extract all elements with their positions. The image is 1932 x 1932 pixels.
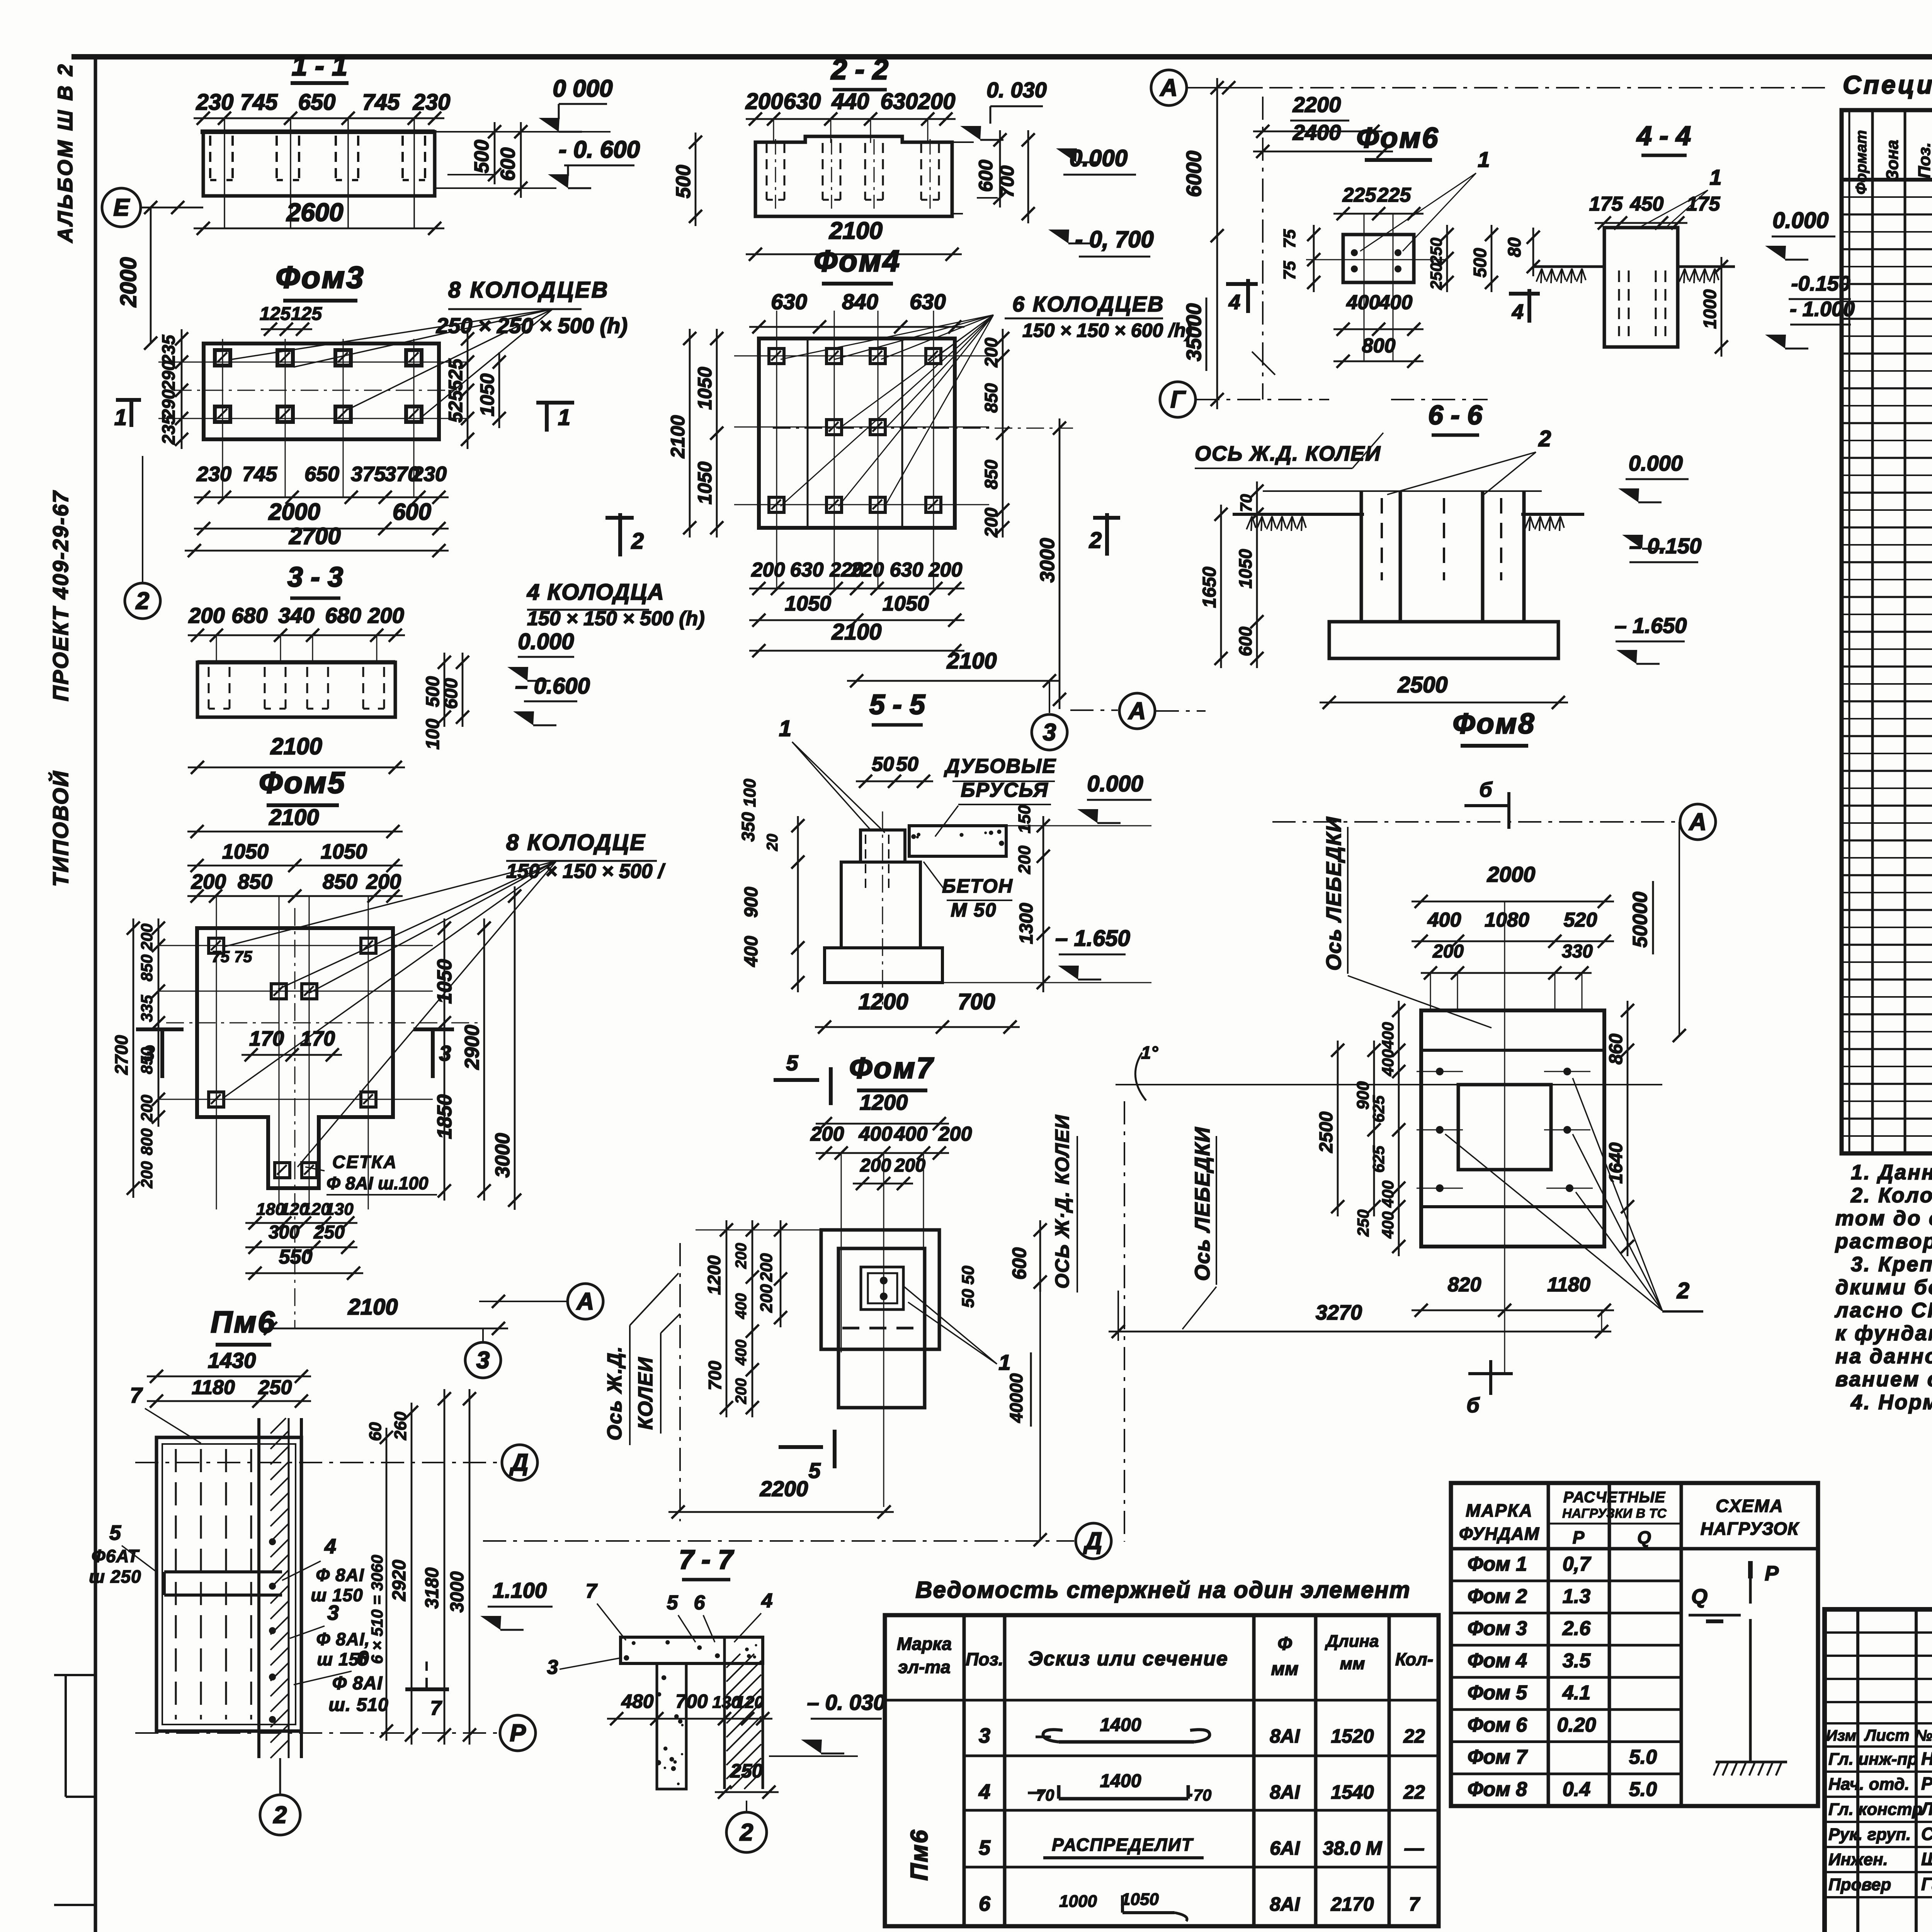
section mark 3 left [136, 1027, 184, 1031]
svg-text:8 КОЛОДЦЕВ: 8 КОЛОДЦЕВ [448, 277, 609, 303]
svg-text:0,7: 0,7 [1563, 1553, 1591, 1575]
winch plan right dims 860 1640 50000 [1627, 1001, 1629, 1256]
svg-text:75: 75 [1280, 261, 1299, 280]
svg-text:700: 700 [705, 1361, 725, 1390]
svg-text:8АI: 8АI [1270, 1725, 1300, 1747]
svg-text:6: 6 [979, 1892, 991, 1915]
svg-text:300: 300 [269, 1222, 299, 1243]
svg-text:М 50: М 50 [951, 899, 997, 921]
svg-text:400: 400 [733, 1293, 750, 1320]
svg-text:500: 500 [1470, 248, 1490, 277]
svg-text:630: 630 [910, 289, 946, 314]
svg-text:1. Данный лист см. совмест: 1. Данный лист см. совместно с листами К… [1851, 1161, 1932, 1184]
svg-text:335: 335 [138, 995, 156, 1022]
svg-text:Фом 2: Фом 2 [1468, 1585, 1527, 1607]
svg-text:600: 600 [1235, 626, 1255, 656]
svg-text:1: 1 [1478, 147, 1490, 172]
svg-text:700: 700 [675, 1690, 708, 1712]
svg-text:220: 220 [850, 559, 884, 581]
svg-text:1°: 1° [1141, 1043, 1158, 1063]
svg-text:Ф6АТ: Ф6АТ [92, 1546, 140, 1566]
svg-text:75: 75 [1280, 229, 1299, 248]
svg-text:40000: 40000 [1006, 1373, 1026, 1423]
svg-text:СХЕМА: СХЕМА [1716, 1496, 1784, 1516]
svg-text:А: А [1160, 75, 1178, 101]
svg-text:ДУБОВЫЕ: ДУБОВЫЕ [944, 755, 1056, 777]
svg-text:125: 125 [291, 304, 322, 324]
winch plan body [1421, 1010, 1604, 1247]
section 3-3 right dims 500 600 100 [444, 653, 446, 727]
svg-text:– 0.600: – 0.600 [515, 673, 590, 699]
left margin bottom register marks [54, 1674, 95, 1676]
section 2-2 right dims 600 700 [999, 130, 1001, 207]
svg-text:6АI: 6АI [1270, 1837, 1300, 1859]
svg-text:1520: 1520 [1331, 1725, 1374, 1747]
svg-text:1050: 1050 [222, 840, 269, 863]
svg-text:2600: 2600 [286, 198, 344, 226]
svg-text:200: 200 [860, 1155, 891, 1176]
title block upper small rows [1825, 1631, 1932, 1634]
svg-text:ТИПОВОЙ: ТИПОВОЙ [48, 770, 73, 887]
axis circle A left above winch plan [1119, 693, 1155, 729]
svg-text:200: 200 [751, 559, 785, 581]
svg-text:Гальперина: Гальперина [1921, 1874, 1932, 1894]
svg-text:200: 200 [367, 603, 404, 628]
section mark 5 bottom [779, 1445, 823, 1449]
plate Pm6 slab body [156, 1437, 301, 1731]
axis circle A right [1070, 709, 1118, 711]
svg-text:1400: 1400 [1100, 1715, 1141, 1735]
svg-text:№ документа: № документа [1915, 1727, 1932, 1744]
svg-text:525: 525 [445, 390, 466, 423]
svg-text:800: 800 [1362, 335, 1396, 357]
svg-text:4: 4 [978, 1780, 990, 1803]
svg-text:Д: Д [509, 1449, 529, 1476]
load diagram ground hatch [1716, 1761, 1787, 1764]
svg-text:Фом6: Фом6 [1357, 122, 1440, 154]
svg-text:Ось Ж.Д.: Ось Ж.Д. [604, 1346, 626, 1440]
svg-text:P: P [1765, 1562, 1779, 1585]
section 5-5 left dims [797, 816, 799, 992]
svg-text:235: 235 [158, 334, 179, 365]
svg-text:600: 600 [441, 678, 461, 709]
svg-text:625: 625 [1369, 1145, 1388, 1173]
svg-text:1: 1 [558, 405, 570, 430]
svg-text:1180: 1180 [192, 1376, 235, 1399]
svg-text:850: 850 [238, 870, 272, 893]
svg-text:Фом 1: Фом 1 [1468, 1553, 1527, 1575]
svg-text:Ф 8АI: Ф 8АI [332, 1673, 383, 1694]
spec table header row [1842, 178, 1932, 182]
title block outer frame [1825, 1609, 1932, 1932]
svg-text:1: 1 [779, 716, 791, 741]
svg-text:Зона: Зона [1883, 140, 1902, 181]
plan Fom7 left dim chain rotated labels [726, 1220, 728, 1417]
svg-text:850: 850 [138, 954, 156, 981]
svg-text:БЕТОН: БЕТОН [942, 875, 1013, 897]
svg-text:1050: 1050 [476, 373, 498, 416]
plan Fom7 extension verticals [841, 1153, 842, 1352]
svg-text:4: 4 [1512, 300, 1524, 323]
section mark б top [1464, 804, 1509, 807]
svg-text:8АI: 8АI [1270, 1781, 1300, 1803]
axis A long dash-dot to the right [1187, 87, 1832, 88]
svg-text:БРУСЬЯ: БРУСЬЯ [961, 779, 1048, 801]
svg-text:200: 200 [745, 89, 783, 114]
svg-text:2: 2 [136, 588, 149, 614]
svg-text:1050: 1050 [321, 840, 367, 863]
svg-text:Длина: Длина [1324, 1632, 1379, 1651]
svg-text:400: 400 [733, 1340, 750, 1366]
axis circle A top [1151, 70, 1187, 105]
winch plan inner bands [1421, 1049, 1604, 1052]
axis circle 2 under detail 7-7 [746, 1801, 747, 1812]
section 1-1 right dims 500 600 [494, 122, 496, 184]
section 5-5 column base [825, 948, 942, 983]
spec table fine sub-rows in left columns [1842, 196, 1932, 198]
svg-text:7: 7 [130, 1383, 143, 1407]
svg-text:4: 4 [761, 1590, 773, 1612]
marka table outer frame [1451, 1483, 1818, 1806]
section mark 2 right of Fom4 [1093, 516, 1120, 520]
svg-text:400: 400 [1379, 291, 1413, 314]
svg-text:200: 200 [138, 923, 156, 951]
section mark 1 right [536, 401, 574, 405]
svg-text:50: 50 [959, 1265, 978, 1284]
svg-text:250: 250 [1427, 238, 1445, 265]
svg-text:7: 7 [1409, 1893, 1420, 1915]
svg-text:Рыбкина: Рыбкина [1921, 1774, 1932, 1794]
svg-text:1850: 1850 [434, 1094, 456, 1139]
winch plan top axis dash-dot to circle A [1272, 821, 1679, 823]
svg-text:– 0. 030: – 0. 030 [807, 1690, 885, 1714]
svg-text:2: 2 [740, 1819, 753, 1846]
section 3-3 dashed wells [208, 667, 210, 709]
winch plan extension verticals [1430, 973, 1431, 1010]
svg-text:200: 200 [188, 603, 224, 628]
svg-text:840: 840 [842, 289, 878, 314]
svg-text:900: 900 [741, 887, 762, 918]
svg-text:745: 745 [240, 90, 278, 115]
svg-text:3000: 3000 [447, 1571, 468, 1612]
svg-text:50: 50 [896, 753, 918, 776]
svg-text:ванием сверить по оборудова: ванием сверить по оборудованию. [1835, 1368, 1932, 1391]
plan Fom5 right dims 1050 2900 1850 3000 [444, 918, 446, 1201]
plan Fom4 wells 9 [769, 349, 784, 364]
svg-text:175: 175 [1589, 193, 1623, 215]
section 2-2 left dim 500 [695, 133, 697, 226]
svg-text:260: 260 [391, 1412, 410, 1440]
svg-text:150: 150 [1015, 805, 1034, 833]
section mark 3 right [413, 1027, 454, 1031]
svg-text:Нач. отд.: Нач. отд. [1828, 1775, 1910, 1794]
svg-text:630: 630 [890, 559, 923, 581]
svg-text:4.1: 4.1 [1562, 1682, 1590, 1704]
section 1-1 anchor wells (dashed) [209, 136, 211, 180]
svg-text:0.000: 0.000 [518, 629, 574, 654]
svg-text:Шабля: Шабля [1921, 1849, 1932, 1869]
svg-text:2: 2 [1677, 1278, 1689, 1303]
svg-text:Е: Е [113, 194, 130, 221]
svg-text:Кол-: Кол- [1395, 1649, 1434, 1669]
svg-text:Спецификация элементов монол: Спецификация элементов монолитной ж/б ко… [1843, 70, 1932, 99]
vedomost column lines [963, 1615, 966, 1926]
svg-text:1 - 1: 1 - 1 [292, 51, 347, 82]
svg-text:2000: 2000 [1487, 862, 1536, 886]
plan Fom3 extension grid [158, 362, 468, 363]
svg-text:525: 525 [445, 358, 466, 391]
axis circle E [102, 188, 141, 227]
svg-text:НАГРУЗОК: НАГРУЗОК [1701, 1519, 1799, 1539]
section 4-4 ground lines with grass [1533, 265, 1604, 268]
svg-text:6: 6 [694, 1592, 706, 1614]
svg-text:5.0: 5.0 [1629, 1778, 1657, 1801]
svg-text:РАСПРЕДЕЛИТ: РАСПРЕДЕЛИТ [1052, 1835, 1194, 1855]
svg-text:Q: Q [1637, 1527, 1651, 1548]
svg-text:РАСЧЕТНЫЕ: РАСЧЕТНЫЕ [1563, 1489, 1666, 1506]
svg-text:Пм6: Пм6 [211, 1305, 276, 1339]
svg-text:60: 60 [366, 1422, 385, 1441]
svg-text:1000: 1000 [1700, 289, 1720, 329]
svg-text:70: 70 [1036, 1786, 1054, 1804]
svg-text:Лапкин: Лапкин [1920, 1799, 1932, 1819]
svg-text:2700: 2700 [289, 523, 340, 549]
svg-text:Рук. груп.: Рук. груп. [1828, 1825, 1911, 1844]
svg-text:Ф 8АI: Ф 8АI [316, 1565, 364, 1585]
callout fan to Fom4 wells [781, 315, 993, 359]
axis circle 2 [125, 583, 160, 619]
detail 7-7 left pier speckled [657, 1663, 686, 1789]
svg-text:850: 850 [981, 459, 1001, 489]
section 3-3 body [197, 662, 395, 717]
svg-text:400: 400 [1379, 1022, 1397, 1049]
svg-text:3 - 3: 3 - 3 [287, 562, 343, 593]
svg-text:А: А [576, 1288, 594, 1315]
svg-text:2100: 2100 [270, 733, 322, 759]
svg-text:630: 630 [784, 89, 821, 114]
svg-text:3270: 3270 [1316, 1301, 1362, 1324]
svg-text:200: 200 [757, 1284, 776, 1313]
svg-text:3000: 3000 [1036, 538, 1059, 583]
svg-text:800: 800 [138, 1128, 156, 1155]
svg-text:600: 600 [497, 148, 519, 181]
svg-text:400: 400 [1427, 909, 1461, 931]
svg-text:680: 680 [325, 603, 361, 628]
svg-text:2100: 2100 [269, 805, 319, 830]
svg-text:2200: 2200 [760, 1476, 808, 1501]
svg-text:630: 630 [790, 559, 824, 581]
svg-text:мм: мм [1271, 1659, 1298, 1679]
svg-text:4 - 4: 4 - 4 [1636, 121, 1691, 151]
svg-text:0.20: 0.20 [1557, 1714, 1596, 1736]
svg-text:200: 200 [1432, 941, 1464, 962]
svg-text:2500: 2500 [1397, 672, 1447, 697]
svg-text:Провер: Провер [1828, 1875, 1891, 1894]
svg-text:Формат: Формат [1853, 130, 1870, 195]
svg-text:1050: 1050 [1235, 549, 1255, 588]
svg-text:745: 745 [242, 463, 277, 486]
svg-text:0.000: 0.000 [1070, 145, 1128, 171]
svg-text:5: 5 [808, 1458, 821, 1483]
svg-text:50000: 50000 [1629, 892, 1651, 948]
svg-text:340: 340 [278, 603, 314, 628]
svg-text:2: 2 [631, 529, 644, 554]
axis circle 3 below [465, 1342, 501, 1378]
svg-text:эл-та: эл-та [898, 1657, 951, 1677]
svg-text:600: 600 [975, 160, 997, 192]
svg-text:1050: 1050 [883, 592, 929, 615]
section 4-4 mark 4 [1509, 292, 1540, 296]
svg-text:Гл. инж-пр: Гл. инж-пр [1828, 1750, 1918, 1769]
svg-text:Эскиз или сечение: Эскиз или сечение [1028, 1648, 1228, 1670]
svg-text:850: 850 [323, 870, 357, 893]
svg-text:3.5: 3.5 [1563, 1650, 1591, 1672]
svg-text:100: 100 [423, 719, 443, 750]
svg-text:230: 230 [412, 463, 447, 486]
svg-text:—: — [1404, 1837, 1424, 1859]
spec table column lines [1871, 110, 1874, 1153]
axis cross mark [1252, 352, 1275, 375]
svg-text:1200: 1200 [858, 989, 908, 1014]
svg-text:250: 250 [313, 1222, 345, 1243]
svg-text:550: 550 [279, 1246, 313, 1268]
svg-text:б: б [1479, 778, 1493, 801]
section 4-4 body [1604, 228, 1678, 347]
svg-text:225: 225 [1342, 184, 1377, 206]
svg-text:Фом 3: Фом 3 [1468, 1617, 1527, 1640]
svg-text:1.100: 1.100 [493, 1578, 547, 1602]
svg-text:400: 400 [894, 1123, 928, 1145]
plan Fom3 right dims 525 525 1050 [467, 329, 469, 449]
plan Fom7 shaft [838, 1248, 925, 1408]
svg-text:– 1.650: – 1.650 [1615, 613, 1687, 638]
svg-text:на данном чертеже. Разбивку: на данном чертеже. Разбивку анкерных бол… [1835, 1345, 1932, 1368]
axis circle 3 under Fom4 [1032, 714, 1067, 750]
svg-text:Пм6: Пм6 [906, 1829, 933, 1881]
railway axis vertical dash-dot [1124, 1101, 1125, 1542]
section mark 2 left of Fom4 [605, 516, 634, 520]
svg-text:2700: 2700 [111, 1035, 131, 1075]
svg-text:Фом7: Фом7 [849, 1052, 934, 1085]
svg-text:200: 200 [981, 507, 1001, 537]
svg-text:5: 5 [109, 1521, 121, 1544]
svg-text:МАРКА: МАРКА [1466, 1500, 1533, 1520]
svg-text:5: 5 [786, 1051, 798, 1075]
winch plan bolt dots [1436, 1068, 1444, 1075]
svg-text:Ведомость стержней на о: Ведомость стержней на один элемент [915, 1577, 1410, 1603]
svg-text:0.000: 0.000 [1629, 451, 1683, 475]
svg-text:ФУНДАМ: ФУНДАМ [1459, 1524, 1540, 1544]
plan Fom6 axis lines [1306, 259, 1445, 260]
svg-text:Фом 7: Фом 7 [1468, 1746, 1528, 1769]
title block signature rows [1825, 1770, 1932, 1773]
svg-text:1000: 1000 [1059, 1892, 1097, 1911]
axis circle Г [1160, 382, 1196, 417]
svg-text:6 КОЛОДЦЕВ: 6 КОЛОДЦЕВ [1012, 292, 1165, 316]
svg-text:Д: Д [1083, 1528, 1102, 1554]
axis circle R with dash-dot line [135, 1732, 499, 1734]
plan Fom4 right dim 3000 [1059, 418, 1061, 709]
svg-text:8АI: 8АI [1270, 1893, 1300, 1915]
title block header row изм лист [1825, 1722, 1932, 1725]
sheet border frame [71, 54, 1932, 60]
svg-text:860: 860 [1606, 1034, 1626, 1065]
section 1-1 top dim line [194, 117, 444, 119]
svg-text:- 0. 600: - 0. 600 [559, 136, 640, 163]
plan Fom6 body [1343, 235, 1414, 282]
svg-text:2: 2 [1089, 528, 1102, 553]
svg-text:3000: 3000 [492, 1133, 514, 1178]
svg-text:4 КОЛОДЦА: 4 КОЛОДЦА [527, 580, 665, 605]
vertical dims 6000 35000 [1216, 78, 1218, 409]
svg-text:Q: Q [1691, 1585, 1708, 1608]
plan Fom3 left dims 235 290 290 235 [181, 329, 183, 449]
svg-text:850: 850 [981, 383, 1001, 413]
section 6-6 legs [1360, 491, 1363, 622]
svg-text:6 × 510 = 3060: 6 × 510 = 3060 [368, 1555, 386, 1664]
svg-text:2000: 2000 [268, 499, 320, 525]
svg-text:120: 120 [735, 1693, 764, 1712]
svg-text:22: 22 [1403, 1781, 1425, 1803]
svg-text:2500: 2500 [1316, 1111, 1337, 1153]
svg-text:75 75: 75 75 [211, 947, 252, 966]
svg-text:850: 850 [138, 1047, 156, 1074]
svg-text:1300: 1300 [1016, 903, 1037, 944]
svg-text:Фом5: Фом5 [259, 765, 346, 799]
svg-text:– 1.650: – 1.650 [1055, 926, 1130, 951]
svg-text:1200: 1200 [704, 1255, 724, 1295]
svg-text:450: 450 [1630, 193, 1664, 215]
svg-text:600: 600 [393, 499, 431, 525]
svg-text:680: 680 [231, 603, 267, 628]
svg-text:ОСЬ Ж·Д. КОЛЕИ: ОСЬ Ж·Д. КОЛЕИ [1051, 1114, 1073, 1289]
plan Fom6 right dims 250 250 500 [1446, 225, 1448, 292]
svg-text:150 × 150 × 500 (h): 150 × 150 × 500 (h) [527, 607, 705, 630]
svg-text:745: 745 [362, 90, 400, 115]
svg-text:Ось ЛЕБЕДКИ: Ось ЛЕБЕДКИ [1191, 1127, 1214, 1281]
svg-text:3180: 3180 [422, 1567, 442, 1609]
svg-text:Г: Г [1170, 386, 1186, 413]
svg-text:Инжен.: Инжен. [1828, 1850, 1888, 1869]
svg-text:2100: 2100 [831, 619, 881, 645]
svg-text:200: 200 [938, 1123, 972, 1145]
svg-text:1640: 1640 [1606, 1142, 1626, 1184]
svg-text:Р: Р [1573, 1527, 1585, 1548]
svg-text:1180: 1180 [1547, 1274, 1590, 1296]
svg-text:200: 200 [981, 337, 1001, 367]
svg-text:1540: 1540 [1331, 1781, 1374, 1803]
plan Fom7 vertical dim 40000 [1039, 1282, 1041, 1540]
svg-text:0 000: 0 000 [553, 75, 612, 102]
svg-text:200: 200 [733, 1243, 750, 1269]
svg-text:2900: 2900 [461, 1025, 483, 1070]
svg-text:22: 22 [1403, 1725, 1425, 1747]
plan Fom3 body [204, 344, 439, 439]
svg-text:А: А [1689, 809, 1707, 835]
svg-text:Ось ЛЕБЕДКИ: Ось ЛЕБЕДКИ [1322, 816, 1345, 971]
svg-text:170: 170 [249, 1027, 284, 1050]
svg-text:235: 235 [158, 414, 179, 445]
plate Pm6 anchor dots on wall [269, 1538, 276, 1545]
svg-text:·70: ·70 [1188, 1786, 1212, 1804]
svg-text:500: 500 [423, 676, 443, 707]
svg-text:375: 375 [351, 463, 386, 486]
plate Pm6 right dim chains [386, 1428, 388, 1741]
svg-text:400: 400 [1379, 1049, 1397, 1077]
svg-text:Поз.: Поз. [966, 1649, 1003, 1669]
svg-text:к фундаментам болтами, задела: к фундаментам болтами, заделанными в кол… [1835, 1322, 1932, 1345]
svg-text:480: 480 [621, 1690, 654, 1712]
